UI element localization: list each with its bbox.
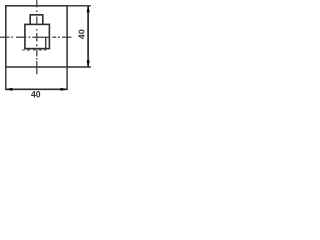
right dimension line (87, 7, 89, 67)
hidden dashed line below block (22, 49, 46, 51)
bottom dim arrow right (61, 88, 68, 91)
boss block (lower tier) (25, 24, 50, 48)
bottom dimension line (7, 88, 67, 90)
svg-text:40: 40 (78, 29, 87, 40)
vertical centerline (36, 0, 38, 74)
bottom dimension: extension lines (5, 68, 7, 91)
right dim arrow down (87, 61, 90, 68)
background (0, 0, 91, 100)
bottom dim arrow left (6, 88, 13, 91)
right dim arrow up (87, 6, 90, 13)
svg-text:40: 40 (31, 89, 41, 100)
horizontal centerline (0, 36, 71, 38)
right dimension: extension lines (67, 5, 91, 7)
inner vertical edge line (45, 37, 47, 48)
outer square plate 40x40 (6, 6, 67, 67)
boss top rect (upper tier) (30, 15, 43, 25)
